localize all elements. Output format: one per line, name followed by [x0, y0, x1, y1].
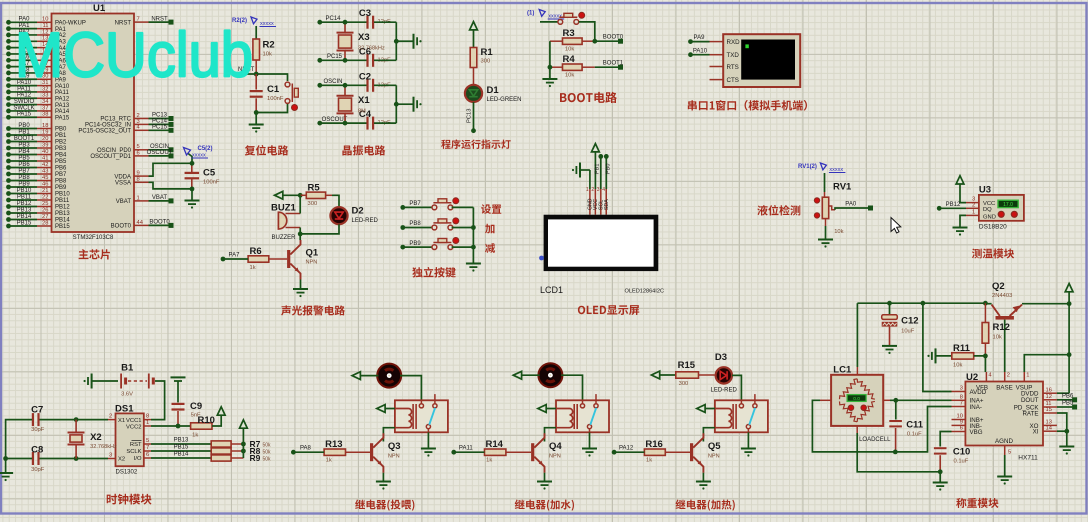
wire PA2 to U1 [9, 34, 38, 36]
wire SWDIO to U1 [9, 104, 38, 106]
DS1 pin 7 [144, 445, 151, 451]
resistor R15 [676, 360, 699, 387]
ground below Q5 [696, 473, 711, 490]
wire OSCIN [149, 149, 172, 151]
power arrow R15 [651, 371, 675, 379]
wire collector node down [299, 234, 301, 240]
relay contact common pin [419, 394, 437, 429]
U2 pin 8 (INA+) [952, 395, 966, 401]
label BOOT电路 [560, 92, 617, 103]
svg-text:MCUclub: MCUclub [15, 21, 253, 91]
LED D2 (LED-RED) [330, 206, 378, 225]
node PC13 terminal [471, 128, 476, 133]
wire C6 to bus [374, 59, 396, 61]
svg-text:PB1: PB1 [595, 164, 601, 174]
wire OLED GND [589, 170, 591, 189]
node PB3 [6, 146, 11, 151]
svg-text:D3: D3 [715, 352, 727, 363]
node PC15 [317, 58, 322, 63]
svg-text:PA12: PA12 [55, 96, 70, 102]
U1 pin 22 (PB11) [37, 199, 52, 201]
U1 pin 3 (PC14-OSC32_IN) [134, 123, 149, 125]
ground below U3 [953, 227, 968, 229]
svg-text:NPN: NPN [306, 260, 318, 266]
node AVDD junction [921, 301, 926, 306]
power arrow U3 VCC [956, 176, 966, 203]
wire PA9 to U1 [9, 78, 38, 80]
relay contact common pin [739, 394, 757, 429]
wire motor to relay entry [420, 400, 422, 403]
U2 pin 11 (PD_SCK) [1043, 401, 1057, 407]
svg-text:1k: 1k [486, 458, 492, 464]
U1 pin 10 (PA0-WKUP) [37, 21, 52, 23]
capacitor C8 [31, 445, 45, 474]
wire PA3 to U1 [9, 40, 38, 42]
U2 pin 12 (DOUT) [1043, 394, 1057, 400]
wire R3 left to R4 left [549, 41, 551, 67]
U1 pin 46 (PB9) [37, 186, 52, 188]
capacitor C11 [889, 400, 924, 452]
node collector junction [298, 232, 303, 237]
svg-text:PB6: PB6 [18, 162, 30, 168]
svg-text:LC1: LC1 [833, 365, 852, 376]
svg-text:Q3: Q3 [388, 441, 401, 452]
svg-text:30pF: 30pF [31, 427, 45, 433]
wire VSUP to power rail [1024, 355, 1069, 372]
relay coil [395, 404, 416, 429]
svg-text:2: 2 [591, 187, 594, 193]
node PB8 [6, 178, 11, 183]
svg-text:PB7: PB7 [18, 168, 30, 174]
svg-text:X1: X1 [358, 95, 370, 106]
wire XI [1057, 430, 1067, 432]
svg-text:3.6V: 3.6V [121, 392, 133, 398]
svg-text:DOUT: DOUT [1021, 397, 1039, 404]
svg-text:PB13: PB13 [17, 207, 32, 213]
ground below C1 [249, 113, 264, 133]
wire PB15 to U1 [9, 225, 38, 227]
node PA12 [6, 96, 11, 101]
U1 pin 25 (PB12) [37, 206, 52, 208]
U2 pin 14 (XI) [1043, 425, 1057, 431]
LC1 display [847, 395, 866, 402]
node OLED left marker [539, 256, 544, 261]
wire R5 to D2 [332, 195, 339, 207]
wire OSCOUT [320, 122, 367, 124]
wire PA1 to U1 [9, 28, 38, 30]
DS1 pin 3 X2 [108, 453, 116, 459]
svg-text:39: 39 [42, 142, 48, 148]
svg-text:0.1uF: 0.1uF [954, 459, 969, 465]
svg-text:R13: R13 [325, 439, 342, 450]
svg-text:LED-GREEN: LED-GREEN [487, 97, 522, 103]
svg-text:C10: C10 [953, 447, 970, 458]
wire C4 to bus [374, 122, 396, 124]
svg-text:9: 9 [960, 420, 963, 426]
svg-text:100nF: 100nF [267, 96, 284, 102]
svg-text:SDA: SDA [604, 199, 610, 210]
svg-text:1: 1 [137, 195, 140, 201]
svg-text:10k: 10k [993, 335, 1002, 341]
node PB6 [6, 165, 11, 170]
svg-text:18: 18 [42, 123, 48, 129]
node C12 junction [887, 301, 892, 306]
transistor Q2 (2N4403) [992, 281, 1022, 319]
wire PA9 to RXD [691, 41, 710, 43]
ground left of battery (sideways) [84, 374, 119, 389]
svg-text:PB9: PB9 [18, 181, 30, 187]
node R4 left junction [548, 65, 553, 70]
node PA10 [6, 83, 11, 88]
svg-text:4: 4 [602, 187, 605, 193]
node PB6 terminal [1072, 397, 1077, 402]
wire PD_SCK to PB5 [1057, 406, 1073, 408]
ground below C12 [882, 345, 897, 347]
svg-text:C12: C12 [901, 316, 918, 327]
svg-text:PB11: PB11 [55, 198, 70, 204]
svg-text:8M: 8M [358, 108, 366, 114]
node BOOT0 terminal [169, 223, 174, 228]
DS1 pin 5 [144, 438, 151, 444]
node PB1 [6, 133, 11, 138]
wire PB14 [151, 457, 211, 459]
U1 pin 38 (PA15) [37, 116, 52, 118]
label 设置 [481, 204, 501, 214]
wire motor to relay entry [740, 400, 742, 403]
node E+ R12 junction [983, 301, 988, 306]
svg-text:33: 33 [42, 93, 48, 99]
svg-text:R4: R4 [563, 54, 576, 65]
U1 pin 21 (PB10) [37, 193, 52, 195]
svg-text:D2: D2 [352, 206, 364, 217]
label 晶振电路 [342, 145, 385, 155]
wire OSCOUT [149, 155, 172, 157]
svg-text:C7: C7 [31, 405, 43, 416]
svg-text:R16: R16 [645, 439, 662, 450]
node PC14 [317, 20, 322, 25]
node PA4 [6, 45, 11, 50]
node PB7 [6, 172, 11, 177]
svg-text:1k: 1k [326, 458, 332, 464]
label 独立按键 [412, 267, 456, 278]
power arrow OLED VCC [592, 144, 600, 189]
svg-text:R1: R1 [481, 47, 494, 58]
svg-text:LOADCELL: LOADCELL [859, 437, 891, 443]
svg-text:50k: 50k [263, 443, 272, 449]
node key bus junction 1 [471, 225, 476, 230]
ground below RV1 [818, 219, 833, 248]
wire Q2 base to U2 BASE [1004, 320, 1006, 372]
svg-text:30pF: 30pF [31, 467, 45, 473]
node BOOT1 [6, 139, 11, 144]
U1 pin 9 (VDDA) [134, 175, 149, 177]
node X2 top junction [74, 417, 79, 422]
label 减 [485, 243, 495, 253]
node PB14 [6, 217, 11, 222]
U1 pin 26 (PB13) [37, 212, 52, 214]
wire R15 to D3 [699, 374, 715, 376]
ground below AGND [997, 476, 1012, 478]
node R8 junction [241, 449, 246, 454]
node PC15 crystal junction [343, 58, 348, 63]
svg-text:DS1302: DS1302 [116, 470, 138, 476]
label 复位电路 [245, 145, 288, 156]
svg-text:B1: B1 [121, 363, 134, 374]
svg-text:32.768kHz: 32.768kHz [358, 46, 385, 52]
ground below key bus [466, 263, 481, 265]
wire PB13 [151, 443, 211, 445]
wire D3 to relay 3 [732, 375, 741, 400]
U2 pin 1 (VSUP) [1024, 372, 1029, 382]
ground below RATE [1059, 446, 1074, 448]
crystal X3 [337, 22, 385, 60]
node power rail junction VSUP [1067, 352, 1072, 357]
wire GND to ground [960, 215, 966, 227]
svg-text:8: 8 [146, 414, 149, 420]
tag C5(2) [184, 146, 213, 163]
wire AGND to ground [1004, 455, 1006, 477]
svg-text:I/O: I/O [134, 456, 142, 462]
node power rail junction top [1067, 301, 1072, 306]
node OSCIN crystal junction [343, 83, 348, 88]
svg-text:32.768kHz: 32.768kHz [90, 444, 117, 450]
capacitor C4 [359, 109, 391, 130]
wire PB6 to U1 [9, 167, 38, 169]
svg-text:RATE: RATE [1022, 410, 1038, 417]
svg-text:20: 20 [42, 136, 48, 142]
wire R1 to D1 [473, 68, 475, 86]
resistor R7 [211, 439, 271, 449]
motor feeding [376, 364, 403, 388]
wire PC14 [149, 123, 172, 125]
svg-text:300: 300 [308, 201, 318, 207]
svg-text:R12: R12 [993, 322, 1010, 333]
capacitor C2 [359, 71, 391, 92]
svg-text:1k: 1k [250, 265, 256, 271]
svg-text:OSCIN_PD0: OSCIN_PD0 [97, 148, 132, 154]
node PB0 [604, 154, 609, 159]
DS1 pin 1 VCC2 [144, 420, 151, 426]
svg-text:NPN: NPN [708, 454, 720, 460]
svg-text:PB12: PB12 [946, 202, 961, 208]
svg-text:DQ: DQ [983, 207, 992, 213]
node PB12 [6, 204, 11, 209]
U1 pin 6 (OSCOUT_PD1) [134, 155, 149, 157]
wire INA- vertical [895, 407, 951, 452]
capacitor C9 [172, 381, 203, 426]
svg-text:PB8: PB8 [55, 179, 67, 185]
svg-text:17.0: 17.0 [1003, 202, 1013, 208]
svg-text:SWDIO: SWDIO [14, 99, 35, 105]
wire relay contact to ground [582, 429, 597, 457]
ground below R4 [542, 67, 557, 87]
wire from tag to R2 [255, 26, 257, 39]
svg-text:2: 2 [972, 202, 975, 208]
transistor Q5 [690, 433, 721, 473]
node PB0 [6, 126, 11, 131]
wire OSCIN [320, 84, 367, 86]
node PA9 [688, 39, 693, 44]
wire AVDD rail [923, 303, 952, 391]
terminal pin TXD [710, 54, 724, 56]
wire PC14 [320, 21, 367, 23]
chip U1 body [52, 14, 135, 233]
wire C2 to bus [374, 84, 396, 86]
wire cap bus [395, 85, 397, 123]
svg-text:NPN: NPN [388, 454, 400, 460]
svg-text:12: 12 [1046, 394, 1052, 400]
wire PA10 to U1 [9, 85, 38, 87]
wire D1 to PC13 node [473, 102, 475, 131]
LC1 bottom pin wire to ground net [857, 426, 940, 472]
relay blade [590, 408, 596, 425]
U1 pin 39 (PB3) [37, 147, 52, 149]
OLED pins [586, 187, 610, 215]
wire VCC2 to R10 [151, 425, 191, 427]
svg-text:PB11: PB11 [17, 194, 32, 200]
U2 pin 15 (RATE) [1043, 407, 1057, 413]
display LCD1 OLED body [544, 215, 659, 271]
wire relay coil to transistor collector [703, 428, 715, 442]
svg-text:R14: R14 [486, 439, 504, 450]
svg-text:LED-RED: LED-RED [711, 388, 738, 394]
svg-text:R10: R10 [198, 415, 215, 426]
svg-text:PA7: PA7 [229, 253, 241, 259]
wire cap bus [395, 22, 397, 60]
power arrow motor 1 [352, 372, 378, 380]
wire boot button to BOOT0 node [579, 22, 595, 41]
wire PA12 to R16 [614, 451, 644, 453]
label 声光报警电路 [281, 305, 345, 315]
svg-text:9: 9 [137, 171, 140, 177]
svg-text:PB7: PB7 [409, 201, 421, 207]
node VFB junction [983, 354, 988, 359]
wire VDDA to C5 top [149, 163, 193, 176]
relay Q3-coil box [395, 400, 448, 432]
node key bus junction 2 [471, 245, 476, 250]
svg-text:SWCLK: SWCLK [13, 105, 34, 111]
ground below Q4 [537, 473, 552, 490]
U1 pin 33 (PA12) [37, 97, 52, 99]
crystal X1 [337, 85, 371, 123]
U2 pin 10 (INB+) [952, 414, 966, 420]
svg-text:X2: X2 [118, 457, 125, 463]
svg-text:3: 3 [597, 187, 600, 193]
wire PB14 to U1 [9, 219, 38, 221]
wire key to bus [452, 206, 474, 208]
wire Q2 emitter to E+ rail [985, 303, 991, 305]
svg-text:R6: R6 [250, 246, 262, 257]
wire reset button to C1 bottom node [256, 104, 287, 113]
svg-text:PB9: PB9 [55, 185, 67, 191]
svg-text:VCC1: VCC1 [126, 418, 141, 424]
U1 pin 37 (PA14) [37, 110, 52, 112]
node PB8 [400, 225, 405, 230]
svg-text:PA10: PA10 [693, 48, 708, 54]
node PA7 [6, 64, 11, 69]
LC1 left pin wire to INA- net [812, 400, 895, 452]
svg-text:PB8: PB8 [409, 221, 421, 227]
svg-text:PB5: PB5 [18, 155, 30, 161]
U1 pin 14 (PA4) [37, 47, 52, 49]
wire PA8 to R13 [293, 451, 324, 453]
svg-text:OSCOUT_PD1: OSCOUT_PD1 [90, 154, 131, 160]
svg-text:DS18B20: DS18B20 [979, 224, 1007, 231]
label 液位检测 [757, 205, 800, 216]
power arrow above R1 [470, 22, 478, 48]
wire R2 to NRST node [240, 60, 256, 74]
svg-text:OSCIN: OSCIN [323, 79, 342, 85]
label OLED显示屏 [578, 305, 639, 315]
svg-text:TXD: TXD [727, 52, 740, 59]
node PB11 [6, 198, 11, 203]
svg-text:10k: 10k [565, 47, 574, 53]
node PA11 [451, 450, 456, 455]
node PB7 [400, 205, 405, 210]
svg-text:34: 34 [42, 99, 49, 105]
label 串口1窗口（模拟手机端） [688, 100, 807, 111]
node PB5 terminal [1072, 405, 1077, 410]
svg-text:PB9: PB9 [409, 241, 421, 247]
ground (sideways) [413, 97, 415, 112]
svg-text:LED-RED: LED-RED [352, 218, 379, 224]
U2 pin 4 (VFB) [986, 372, 992, 382]
svg-text:PB1: PB1 [55, 133, 67, 139]
label 称重模块 [956, 498, 998, 508]
buzzer BUZ1 [271, 203, 300, 241]
node PA8 [291, 450, 296, 455]
svg-text:C3: C3 [359, 8, 371, 19]
svg-text:46: 46 [42, 181, 48, 187]
svg-text:STM32F103C8: STM32F103C8 [73, 235, 114, 241]
U1 pin 44 (BOOT0) [134, 224, 149, 226]
svg-text:50k: 50k [263, 457, 272, 463]
U1 pin 19 (PB1) [37, 134, 52, 136]
wire bus to ground [396, 40, 412, 42]
potentiometer RV1 [814, 182, 852, 236]
ground above C9 (inverted) [174, 380, 182, 382]
node buzzer supply junction [298, 193, 303, 198]
svg-text:10uF: 10uF [901, 329, 915, 335]
resistor R8 [211, 446, 271, 456]
U2 pin 16 (DVDD) [1043, 387, 1057, 393]
node PA2 [6, 33, 11, 38]
LED D1 (LED-GREEN) [465, 85, 522, 103]
resistor R14 [485, 439, 532, 464]
LC1 top pin to E+ rail [856, 303, 858, 375]
boot button [558, 20, 563, 25]
node X2 bottom junction [74, 456, 79, 461]
svg-text:C5: C5 [203, 168, 216, 179]
node PA3 [6, 39, 11, 44]
wire PC15 [320, 59, 367, 61]
svg-text:PB0: PB0 [55, 127, 67, 133]
svg-text:C2: C2 [359, 71, 371, 82]
svg-text:PA11: PA11 [55, 90, 69, 96]
svg-text:AVDD: AVDD [970, 389, 987, 396]
resistor R11 [952, 343, 974, 369]
svg-text:VCC2: VCC2 [126, 424, 141, 430]
node BOOT0 junction [592, 39, 597, 44]
svg-text:1k: 1k [646, 458, 652, 464]
svg-text:6: 6 [960, 426, 963, 432]
wire PA4 to U1 [9, 47, 38, 49]
U2 pin 5 (AGND) [1005, 446, 1012, 456]
node PA7 [221, 257, 226, 262]
node PC15 terminal [169, 128, 174, 133]
svg-text:RV1: RV1 [833, 182, 852, 193]
svg-text:1: 1 [1026, 373, 1029, 379]
